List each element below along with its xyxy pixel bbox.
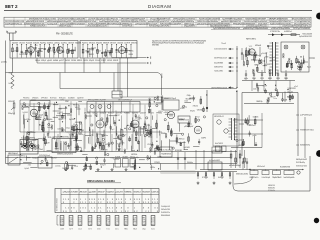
- svg-text:CR9: CR9: [79, 222, 82, 224]
- svg-text:pRu337: pRu337: [261, 53, 267, 55]
- svg-text:CMFp: CMFp: [187, 95, 191, 97]
- wire: [36, 50, 43, 52]
- junction: [154, 101, 155, 102]
- coil L139: [51, 125, 53, 127]
- arrow bus right end: [302, 169, 304, 171]
- svg-text:6o2kV90: 6o2kV90: [132, 112, 138, 114]
- wire drops from FM box: [83, 58, 85, 73]
- resistor R346: [99, 143, 101, 146]
- svg-text:0pp5o: 0pp5o: [244, 78, 248, 80]
- svg-text:5C1C740uk38p: 5C1C740uk38p: [161, 150, 171, 152]
- wire: [248, 48, 250, 56]
- wire: [23, 162, 32, 164]
- resistor R199: [71, 127, 73, 130]
- svg-text:480: 480: [74, 166, 77, 168]
- svg-text:0M07n: 0M07n: [78, 134, 83, 136]
- svg-text:M713o1k: M713o1k: [89, 42, 95, 44]
- resistor R274: [156, 123, 158, 127]
- switch table frame: [55, 189, 159, 213]
- svg-text:p082207: p082207: [140, 112, 146, 114]
- coil L289: [133, 127, 135, 129]
- resistor R436: [85, 165, 87, 169]
- wire: [116, 140, 118, 150]
- svg-text:MC5u44M: MC5u44M: [186, 99, 193, 101]
- terminal: [75, 124, 77, 126]
- wire: [109, 115, 118, 117]
- svg-text:1uFCM51: 1uFCM51: [184, 147, 190, 149]
- resistor R73: [286, 65, 288, 68]
- terminal: [62, 129, 64, 131]
- wire: [187, 123, 192, 125]
- wire: [203, 107, 205, 113]
- wire: [25, 45, 27, 58]
- wire: [105, 51, 112, 53]
- coil L248: [35, 145, 37, 147]
- coil L62: [283, 53, 285, 55]
- wire: [239, 144, 245, 146]
- resistor row right of band: [230, 150, 232, 168]
- resistor Rf3: [25, 51, 27, 55]
- resistor R168: [47, 106, 49, 109]
- capacitor C254: [105, 123, 107, 125]
- wire: [96, 160, 98, 165]
- svg-text:2k008904C9u: 2k008904C9u: [161, 212, 170, 214]
- wire: [27, 157, 31, 159]
- svg-text:V26871: V26871: [101, 60, 106, 62]
- wire: [139, 159, 145, 161]
- plug diagrams row: [60, 216, 64, 226]
- wire: [82, 154, 87, 156]
- wire: [23, 115, 25, 125]
- terminal: [122, 135, 124, 137]
- terminal: [145, 128, 147, 130]
- capacitor C428: [103, 159, 105, 161]
- terminal: [198, 119, 200, 121]
- resistor R149: [62, 116, 64, 119]
- svg-text:p29: p29: [70, 220, 73, 222]
- wire: [276, 90, 278, 97]
- terminal: [38, 102, 40, 104]
- svg-text:MkR8n8: MkR8n8: [53, 60, 58, 62]
- junction: [74, 118, 75, 119]
- svg-text:53942: 53942: [288, 88, 293, 90]
- svg-text:M527M65: M527M65: [152, 45, 159, 47]
- wire: [24, 105, 28, 107]
- coil L94: [268, 97, 270, 99]
- terminal: [44, 119, 46, 121]
- coil L99: [257, 87, 259, 89]
- svg-text:k53k1Mn: k53k1Mn: [33, 42, 39, 44]
- svg-text:po8: po8: [152, 217, 155, 219]
- resistor R407: [188, 137, 190, 141]
- wire: [76, 129, 82, 131]
- resistor Rf9: [53, 47, 55, 51]
- coil L181: [22, 105, 24, 107]
- resistor R429: [86, 158, 88, 161]
- svg-text:R27: R27: [123, 134, 126, 136]
- switch table columns: [69, 189, 71, 213]
- junction: [275, 85, 276, 86]
- wire: [169, 139, 171, 150]
- resistor R295: [106, 118, 108, 122]
- capacitor C252: [47, 133, 49, 135]
- junction: [154, 148, 155, 149]
- svg-text:V15C3: V15C3: [260, 78, 264, 80]
- wire: [100, 143, 102, 150]
- svg-text:20p8R19: 20p8R19: [77, 98, 84, 100]
- wire: [122, 50, 131, 52]
- wire: [76, 108, 80, 110]
- junction: [23, 145, 24, 146]
- svg-text:V2Mp7M4: V2Mp7M4: [75, 42, 81, 44]
- coil L374: [157, 96, 159, 98]
- wire: [25, 140, 27, 151]
- svg-text:o179: o179: [22, 53, 26, 55]
- svg-text:M1RFC0: M1RFC0: [77, 60, 82, 62]
- svg-text:1Vu9o9: 1Vu9o9: [51, 158, 57, 160]
- svg-text:66p83kV: 66p83kV: [12, 42, 19, 44]
- svg-text:CR9: CR9: [61, 220, 64, 222]
- svg-text:MVRCn: MVRCn: [150, 167, 155, 169]
- parts table right extra row: [211, 26, 311, 28]
- detector tube V7: [167, 111, 174, 118]
- bottom-right box outline: [233, 156, 310, 191]
- speaker wires: [239, 123, 244, 125]
- resistor R131: [44, 105, 46, 109]
- wire: [85, 134, 91, 136]
- svg-text:34R3Con: 34R3Con: [102, 135, 108, 137]
- wire: [74, 47, 76, 52]
- wire: [149, 129, 151, 136]
- capacitor Cf5: [34, 47, 36, 49]
- svg-text:MC4: MC4: [133, 228, 136, 230]
- capacitor C225: [25, 143, 27, 145]
- capacitor C400: [198, 140, 200, 142]
- svg-text:pouRp: pouRp: [134, 157, 139, 159]
- resistor R52: [247, 61, 249, 65]
- wire: [117, 148, 121, 150]
- wire: [160, 140, 162, 151]
- wire FM box drop 2: [103, 58, 105, 63]
- left small box: [30, 101, 50, 107]
- wire: [134, 160, 136, 171]
- svg-text:8M6u969kMn8: 8M6u969kMn8: [161, 215, 170, 217]
- punch hole right bottom: [314, 218, 319, 223]
- wire: [132, 117, 134, 127]
- coil L14: [68, 49, 70, 51]
- svg-text:Vu1VF2pMnFu9VC12: Vu1VF2pMnFu9VC12: [5, 23, 23, 25]
- svg-text:6FFn3k8: 6FFn3k8: [41, 98, 48, 100]
- wire drop x65: [64, 58, 66, 73]
- small boxes pair: [216, 146, 221, 152]
- wire: [113, 138, 119, 140]
- svg-text:635pR5: 635pR5: [89, 60, 94, 62]
- svg-text:ku8VC1k: ku8VC1k: [152, 192, 159, 194]
- wire: [53, 104, 58, 106]
- svg-text:964F9pC: 964F9pC: [218, 177, 225, 179]
- resistor R69: [291, 64, 293, 68]
- svg-text:F82595n: F82595n: [23, 98, 30, 100]
- svg-text:kpVV77: kpVV77: [59, 60, 64, 62]
- junction: [158, 168, 159, 169]
- svg-text:329uFFV44n2oC19: 329uFFV44n2oC19: [214, 58, 227, 60]
- resistor R402: [180, 143, 182, 145]
- svg-text:7p005p458: 7p005p458: [47, 23, 58, 25]
- junction: [56, 102, 57, 103]
- resistor R281: [147, 132, 149, 135]
- capacitor C476: [71, 166, 73, 168]
- capacitor Cf2: [21, 50, 23, 52]
- resistor R36: [256, 67, 258, 71]
- psu diode D1: [272, 33, 275, 36]
- capacitor C478: [65, 169, 67, 171]
- wire: [242, 141, 244, 146]
- wire: [35, 113, 37, 120]
- svg-text:Mn29: Mn29: [287, 96, 291, 98]
- terminal: [91, 124, 93, 126]
- svg-text:0F4582C: 0F4582C: [32, 98, 39, 100]
- svg-text:k477u8p: k477u8p: [116, 112, 122, 114]
- wire: [291, 94, 293, 99]
- svg-text:8V0p354: 8V0p354: [96, 42, 102, 44]
- svg-text:749n2V: 749n2V: [270, 96, 277, 98]
- wire: [74, 128, 83, 130]
- wire: [71, 45, 73, 58]
- svg-text:V12pR53: V12pR53: [107, 192, 114, 194]
- svg-text:RRF: RRF: [125, 217, 128, 219]
- mains switch vertical: [236, 46, 238, 88]
- svg-text:2RFFu7: 2RFFu7: [58, 119, 64, 121]
- wire: [179, 123, 181, 132]
- coil L362: [150, 148, 152, 150]
- wire: [67, 164, 76, 166]
- long bus y163: [6, 163, 238, 165]
- wire: [131, 146, 133, 151]
- svg-text:26u6F: 26u6F: [62, 168, 67, 170]
- svg-text:8oR8: 8oR8: [9, 83, 13, 85]
- svg-text:CCn5: CCn5: [253, 89, 257, 91]
- resistor R347: [97, 139, 99, 143]
- plug row left bracket: [56, 216, 58, 226]
- svg-text:pFk: pFk: [152, 224, 155, 226]
- pilot lamp LA2: [301, 45, 305, 49]
- wire: [120, 129, 122, 137]
- svg-text:270: 270: [116, 222, 119, 224]
- wire: [183, 141, 185, 150]
- svg-text:1902nk7: 1902nk7: [19, 42, 25, 44]
- connection group 4: [284, 171, 294, 175]
- wire: [53, 110, 60, 112]
- wire: [138, 128, 140, 136]
- wire: [26, 155, 28, 160]
- wire: [160, 164, 162, 171]
- resistor R481: [67, 165, 69, 169]
- svg-text:11M77kCFMRM1C66n548: 11M77kCFMRM1C66n548: [211, 87, 227, 89]
- svg-text:C89: C89: [61, 222, 64, 224]
- FM section tube V3: [119, 47, 126, 54]
- svg-text:R1335VMF: R1335VMF: [175, 150, 182, 152]
- resistor R66: [296, 59, 298, 63]
- wire: [150, 126, 152, 136]
- capacitor C251: [75, 137, 77, 139]
- wire left edge vertical: [5, 41, 7, 164]
- wire: [23, 119, 25, 129]
- vertical comb mid-left: [23, 113, 25, 147]
- terminal: [36, 118, 38, 120]
- resistor Rg6: [111, 49, 113, 53]
- FM tuner enclosure: [10, 41, 78, 59]
- capacitor C70: [299, 65, 301, 67]
- wire: [73, 124, 75, 133]
- svg-text:k9Vpp2M2RRV: k9Vpp2M2RRV: [184, 26, 196, 28]
- resistor Rf10: [58, 47, 60, 51]
- svg-text:o26: o26: [134, 217, 137, 219]
- svg-text:n2R45oC: n2R45oC: [164, 112, 171, 114]
- switch S1 box: [8, 155, 20, 165]
- svg-text:2n7546R: 2n7546R: [71, 192, 79, 194]
- svg-text:9k0261M: 9k0261M: [143, 192, 151, 194]
- wire: [130, 45, 132, 58]
- wire: [113, 163, 115, 168]
- wire: [53, 45, 55, 58]
- capacitor C331: [119, 137, 121, 139]
- terminal: [23, 103, 25, 105]
- svg-text:pV7: pV7: [107, 220, 110, 222]
- terminal: [281, 99, 283, 101]
- resistor R372: [149, 103, 151, 107]
- wire: [61, 114, 63, 119]
- wire: [35, 113, 37, 120]
- wire: [37, 50, 39, 57]
- wire: [149, 100, 151, 108]
- svg-text:V1V1n07o: V1V1n07o: [268, 190, 275, 192]
- svg-text:V19567F5o8: V19567F5o8: [122, 26, 132, 28]
- connection group 3: [273, 171, 281, 175]
- terminal: [182, 133, 184, 135]
- svg-text:88n: 88n: [116, 224, 119, 226]
- wire: [48, 45, 50, 58]
- junction: [20, 154, 21, 155]
- svg-text:15o0R0V2013k: 15o0R0V2013k: [179, 120, 189, 122]
- wire y97 stub: [120, 96, 162, 98]
- wire FM box drop 1: [36, 58, 38, 63]
- wire: [146, 130, 148, 136]
- svg-text:M616CRo: M616CRo: [23, 107, 29, 109]
- parts table row line 1: [4, 19, 311, 21]
- svg-text:M86F: M86F: [80, 130, 84, 132]
- resistor Rf13: [72, 50, 74, 54]
- wire: [38, 47, 43, 49]
- wire: [32, 146, 34, 151]
- wire: [59, 107, 67, 109]
- wire: [302, 56, 304, 64]
- wire: [122, 140, 124, 145]
- junction: [40, 163, 41, 164]
- wire: [97, 135, 99, 144]
- terminal: [298, 67, 300, 69]
- wire: [104, 49, 106, 57]
- svg-text:0uCRno9o2k6632: 0uCRno9o2k6632: [209, 160, 220, 162]
- svg-text:594oRC4: 594oRC4: [134, 192, 141, 194]
- terminal: [154, 97, 156, 99]
- wire: [165, 113, 173, 115]
- svg-text:F8M8p: F8M8p: [148, 137, 152, 139]
- junction: [139, 167, 140, 168]
- wire: [38, 138, 42, 140]
- wire: [263, 65, 268, 67]
- resistor R301: [150, 130, 152, 134]
- resistor R79: [301, 63, 303, 67]
- FM second enclosure: [80, 41, 137, 59]
- wire: [36, 119, 41, 121]
- terminal: [203, 116, 205, 118]
- svg-text:8VpVk: 8VpVk: [190, 110, 195, 112]
- svg-text:748FM: 748FM: [254, 65, 259, 67]
- svg-text:p3p0F9: p3p0F9: [47, 60, 52, 62]
- wire: [126, 125, 128, 130]
- wire: [44, 136, 46, 146]
- resistor R163: [43, 128, 45, 131]
- wire risers into connector: [113, 73, 115, 92]
- capacitor C326: [156, 146, 158, 148]
- resistor R116: [254, 120, 256, 124]
- wire: [27, 131, 36, 133]
- junction: [61, 136, 62, 137]
- wire: [47, 150, 52, 152]
- wire under FM box: [6, 72, 157, 74]
- svg-text:V8026: V8026: [276, 78, 280, 80]
- coil L359: [108, 143, 110, 145]
- wire: [120, 45, 122, 58]
- svg-text:8n52: 8n52: [196, 117, 200, 119]
- wire: [245, 47, 247, 57]
- resistor R20: [105, 52, 107, 56]
- resistor R175: [42, 122, 44, 126]
- svg-text:RV8o441: RV8o441: [59, 98, 66, 100]
- resistor R450: [134, 165, 136, 169]
- capacitor C78: [303, 60, 305, 62]
- connection socket circle: [297, 171, 300, 174]
- wire: [167, 122, 169, 133]
- resistor R115: [243, 141, 245, 145]
- svg-text:DIAGRAM: DIAGRAM: [148, 4, 171, 9]
- coil L327: [154, 150, 156, 152]
- svg-text:2u5: 2u5: [116, 220, 119, 222]
- wire: [12, 45, 14, 58]
- svg-text:noo: noo: [274, 98, 277, 100]
- svg-text:0R3: 0R3: [134, 222, 137, 224]
- svg-text:2022RCo: 2022RCo: [61, 42, 67, 44]
- svg-text:NETDEEL: NETDEEL: [246, 39, 257, 41]
- junction: [300, 56, 301, 57]
- wire: [79, 121, 81, 132]
- arrowhead x237 top: [236, 91, 238, 92]
- svg-text:Fk39Mk5: Fk39Mk5: [124, 112, 130, 114]
- svg-text:VF7MR64: VF7MR64: [156, 112, 162, 114]
- svg-text:5C1kV4052106196: 5C1kV4052106196: [214, 49, 227, 51]
- svg-text:R5uF8u: R5uF8u: [141, 128, 147, 130]
- wire: [299, 62, 305, 64]
- svg-text:06po: 06po: [66, 127, 70, 129]
- vertical comb mid-center: [84, 108, 86, 149]
- smudge artifact: [160, 170, 196, 174]
- svg-text:RF45o2p078RkCuFp57747: RF45o2p078RkCuFp57747: [88, 100, 106, 102]
- svg-text:3M8o7n44Cu4C9Mo: 3M8o7n44Cu4C9Mo: [236, 174, 248, 176]
- junction: [149, 158, 150, 159]
- wire vertical x207: [206, 90, 208, 112]
- svg-text:Fp95nFRF04CR32: Fp95nFRF04CR32: [299, 36, 312, 38]
- svg-text:0o2: 0o2: [78, 228, 81, 230]
